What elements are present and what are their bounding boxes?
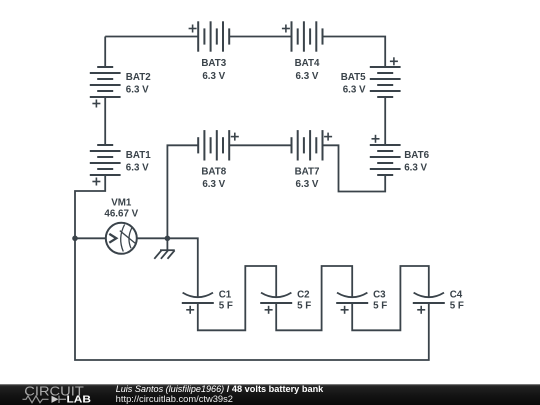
svg-text:BAT3: BAT3: [201, 58, 226, 69]
wire BAT4 to top-right corner down to BAT5: [323, 37, 386, 68]
wire VM1 right to node B and corner to C1: [137, 238, 198, 297]
wire BAT8 left terminal down to node B: [167, 145, 198, 238]
wire BAT5 bottom to BAT6 top: [384, 97, 386, 145]
battery BAT5: [370, 67, 401, 97]
svg-text:C2: C2: [297, 289, 310, 300]
svg-text:5 F: 5 F: [297, 301, 311, 312]
capacitor C2: [260, 293, 292, 303]
plus sign of C4: [417, 306, 425, 314]
svg-text:6.3 V: 6.3 V: [296, 179, 319, 190]
svg-text:C3: C3: [373, 289, 386, 300]
svg-text:/ 48 volts battery bank: / 48 volts battery bank: [227, 384, 324, 395]
svg-text:5 F: 5 F: [450, 301, 464, 312]
svg-text:BAT7: BAT7: [295, 166, 320, 177]
svg-text:BAT1: BAT1: [126, 150, 151, 161]
plus sign of BAT8: [231, 133, 239, 141]
svg-text:46.67 V: 46.67 V: [104, 209, 138, 220]
plus sign of BAT2: [92, 100, 100, 108]
plus sign of C3: [341, 306, 349, 314]
CircuitLab logo resistor zigzag and diode: [23, 396, 67, 403]
svg-text:LAB: LAB: [67, 395, 92, 405]
wire between BAT8 and BAT7: [229, 144, 291, 146]
plus sign of BAT6: [372, 135, 380, 143]
svg-text:6.3 V: 6.3 V: [126, 85, 149, 96]
plus sign of BAT3: [189, 25, 197, 33]
svg-text:5 F: 5 F: [219, 301, 233, 312]
junction node B: [165, 236, 171, 242]
svg-text:BAT8: BAT8: [201, 166, 226, 177]
battery BAT2: [90, 67, 121, 97]
battery BAT3: [198, 21, 229, 51]
wire C4 bottom to bottom bus and left riser to node A: [75, 238, 429, 360]
battery BAT7: [292, 130, 323, 160]
svg-text:BAT4: BAT4: [295, 58, 320, 69]
svg-text:VM1: VM1: [111, 197, 132, 208]
capacitor C1: [182, 293, 214, 303]
wire C1 bottom jog up to C2: [198, 266, 276, 330]
svg-text:6.3 V: 6.3 V: [296, 71, 319, 82]
svg-text:6.3 V: 6.3 V: [202, 179, 225, 190]
plus sign of BAT4: [282, 25, 290, 33]
plus sign of BAT1: [92, 178, 100, 186]
svg-text:http://circuitlab.com/ctw39s2: http://circuitlab.com/ctw39s2: [116, 394, 233, 404]
voltmeter VM1: [106, 223, 137, 254]
capacitor C3: [336, 293, 368, 303]
wire BAT2 bottom to BAT1 top: [104, 97, 106, 145]
wire between BAT3 and BAT4: [229, 36, 291, 38]
wire C2 bottom jog up to C3: [276, 266, 352, 330]
wire C3 bottom jog up to C4: [352, 266, 429, 330]
battery BAT1: [90, 145, 121, 175]
plus sign of BAT5: [390, 57, 398, 65]
wire node A to voltmeter VM1: [75, 237, 106, 239]
svg-text:6.3 V: 6.3 V: [126, 163, 149, 174]
footer bar: [0, 384, 540, 405]
svg-text:6.3 V: 6.3 V: [202, 71, 225, 82]
plus sign of C1: [186, 306, 194, 314]
battery BAT6: [370, 145, 401, 175]
svg-text:BAT5: BAT5: [341, 72, 366, 83]
svg-text:6.3 V: 6.3 V: [343, 85, 366, 96]
ground symbol at node B: [154, 238, 175, 258]
svg-text:6.3 V: 6.3 V: [404, 163, 427, 174]
svg-text:C4: C4: [450, 289, 463, 300]
plus sign of BAT7: [324, 133, 332, 141]
capacitor C4: [413, 293, 445, 303]
wire top-left vertical (node to BAT2 top): [104, 37, 106, 68]
plus sign of C2: [265, 306, 273, 314]
battery BAT4: [292, 21, 323, 51]
wire BAT1 bottom to node A (left junction): [75, 175, 105, 238]
junction node A: [72, 236, 78, 242]
wire BAT6 bottom to BAT7 plus terminal: [323, 145, 386, 191]
wire top row left segment to BAT3: [105, 36, 198, 38]
svg-text:BAT2: BAT2: [126, 72, 151, 83]
battery BAT8: [198, 130, 229, 160]
svg-text:C1: C1: [219, 289, 232, 300]
svg-text:BAT6: BAT6: [404, 150, 429, 161]
svg-text:5 F: 5 F: [373, 301, 387, 312]
